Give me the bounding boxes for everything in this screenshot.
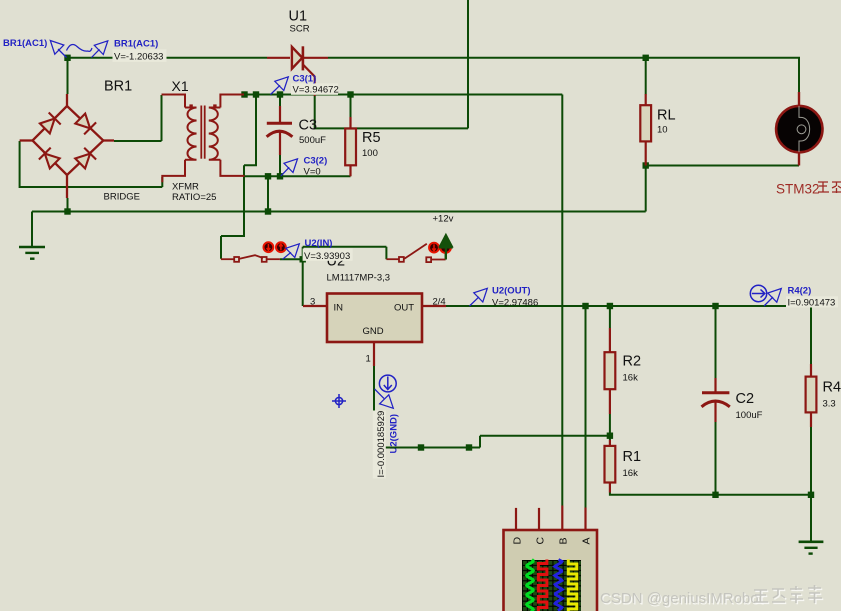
wire U2 GND net (374, 365, 610, 448)
probe U2(GND) value label (rotated) (373, 411, 387, 479)
svg-text:D: D (512, 537, 524, 545)
svg-text:2/4: 2/4 (433, 297, 446, 308)
probe C3(1) arrow (271, 77, 289, 95)
svg-text:1: 1 (366, 354, 371, 365)
probe U2(IN) label (303, 238, 353, 262)
switch SW1 (left, closed) (221, 255, 280, 262)
switch SW2 toggle circle (440, 242, 451, 253)
junction OUT scope A (582, 303, 588, 309)
oscilloscope body (504, 506, 598, 611)
wire top bus right (SCR cathode to lamp corner) (328, 58, 799, 93)
svg-text:C2: C2 (736, 391, 755, 407)
ground symbol right (799, 542, 824, 555)
probe BR1(AC1) right label (113, 39, 167, 63)
svg-text:V=0: V=0 (304, 167, 321, 178)
diode D1 (upper-left) (40, 113, 61, 134)
probe U2(GND) arrow (375, 389, 394, 408)
svg-text:STM32: STM32 (776, 182, 820, 197)
wire C3 bus and scope-B drop (245, 95, 563, 506)
probe U2(OUT) arrow (470, 288, 488, 306)
svg-text:R4: R4 (823, 380, 841, 396)
svg-text:IN: IN (334, 303, 344, 314)
resistor R1 (605, 440, 616, 493)
transformer X1 (162, 95, 245, 183)
scope pin A (584, 508, 586, 531)
waveform blue (ch B) (555, 560, 562, 611)
wire RL-lamp bottom row (646, 165, 799, 167)
junction C3 bottom row x268 (265, 173, 271, 179)
svg-text:16k: 16k (623, 373, 639, 384)
junction RL bottom (643, 162, 649, 168)
svg-text:B: B (558, 537, 570, 544)
resistor R2 (605, 328, 616, 414)
probe C3(2) arrow (281, 159, 298, 176)
junction C3 top (277, 91, 283, 97)
svg-text:U1: U1 (289, 9, 308, 25)
wire C2 pins (715, 306, 717, 495)
svg-text:500uF: 500uF (299, 135, 326, 146)
junction ground bus x67 (64, 208, 70, 214)
wire switch output to U2 IN net (280, 247, 387, 306)
wire R2 chain (609, 306, 611, 440)
wire R1 chain and bottom bus (610, 493, 811, 495)
svg-text:BR1(AC1): BR1(AC1) (3, 38, 47, 49)
svg-text:A: A (581, 537, 593, 544)
probe R4(2) label (786, 286, 838, 309)
wire U2 OUT net (446, 306, 811, 364)
secondary pin paths (220, 95, 244, 108)
primary winding (185, 108, 197, 160)
svg-text:I=-0.000185929: I=-0.000185929 (376, 411, 387, 478)
svg-text:BR1(AC1): BR1(AC1) (114, 39, 158, 50)
svg-text:V=-1.20633: V=-1.20633 (114, 52, 163, 63)
svg-text:GND: GND (363, 326, 384, 337)
wire C3 pins (279, 95, 281, 177)
waveform red (ch C) (538, 560, 547, 611)
junction R5 top (347, 91, 353, 97)
svg-text:RL: RL (657, 108, 676, 124)
svg-text:+12v: +12v (433, 214, 454, 225)
probe C3(1) label (291, 74, 339, 96)
svg-text:R2: R2 (623, 354, 642, 370)
regulator U2 box (303, 294, 446, 367)
lamp (STM32 load) (776, 92, 822, 166)
wire RL top (645, 58, 647, 95)
junction RL top bus (643, 55, 649, 61)
probe C3(2) label (304, 155, 328, 177)
switch SW1 toggle circles (264, 242, 286, 252)
primary pin paths (162, 95, 186, 108)
switch SW2 (right, open) (386, 244, 445, 262)
junction ground bus x268 (265, 208, 271, 214)
scope pin B (561, 506, 563, 531)
svg-text:100uF: 100uF (736, 410, 763, 421)
wire +12v stem (445, 247, 447, 260)
probe U2(IN) arrow (283, 244, 300, 259)
svg-text:C: C (535, 537, 547, 545)
capacitor C2 (702, 378, 730, 422)
svg-text:C3(2): C3(2) (304, 155, 328, 166)
junction gnd-net x421 (418, 444, 424, 450)
watermark CSDN (600, 585, 823, 608)
waveform green (ch D) (527, 560, 534, 611)
junction bottom bus R4 (808, 492, 814, 498)
svg-text:OUT: OUT (394, 303, 414, 314)
wire R5 top (350, 95, 352, 118)
svg-text:X1: X1 (172, 78, 189, 94)
core (200, 106, 202, 159)
resistor R5 (345, 117, 356, 176)
wire RL bottom to ground bus (645, 166, 647, 212)
transformer polarity dots (189, 104, 192, 107)
origin marker (332, 394, 346, 408)
current probe R4(2) symbol (750, 285, 766, 301)
junction at BR1 top (64, 55, 70, 61)
wire BR1 top stub (67, 58, 69, 94)
wire scope A drop (585, 306, 587, 508)
current probe U2(GND) symbol (379, 375, 396, 392)
wire secondary-bottom jog (244, 95, 256, 177)
junction gnd-net x469 (466, 444, 472, 450)
junction C3 bottom (277, 173, 283, 179)
diode D4 (lower-right) (75, 148, 96, 169)
junction OUT C2 (712, 303, 718, 309)
ground symbol left (19, 247, 45, 260)
scope pin D (515, 508, 517, 530)
SCR U1 (267, 46, 328, 96)
diode D3 (lower-left) (39, 148, 60, 169)
svg-text:3: 3 (310, 297, 315, 308)
wire C3 bottom row to R5 (244, 175, 351, 177)
probe BR1(AC1) right arrow (92, 41, 108, 58)
svg-text:C3: C3 (299, 117, 318, 133)
wire SCR gate run (315, 0, 468, 128)
svg-text:CSDN @geniusIMRobot: CSDN @geniusIMRobot (600, 590, 764, 607)
wire drop x268 to ground bus (267, 176, 269, 211)
secondary winding (209, 108, 221, 160)
svg-text:R4(2): R4(2) (788, 286, 812, 297)
probe R4(2) arrow (764, 289, 781, 307)
capacitor C3 (267, 106, 293, 155)
svg-text:I=0.901473: I=0.901473 (788, 297, 836, 308)
wire R4 pins and ground riser (810, 427, 812, 541)
power +12v arrow (439, 234, 453, 260)
svg-text:BRIDGE: BRIDGE (104, 192, 140, 203)
wire secondary-bottom to switch (221, 176, 244, 258)
label STM32 (chinese) (776, 182, 841, 197)
junction bottom bus C2 (712, 492, 718, 498)
probe BR1(AC1) left arrow (50, 41, 66, 58)
svg-text:3.3: 3.3 (823, 399, 836, 410)
svg-text:R5: R5 (362, 130, 381, 146)
svg-text:XFMR: XFMR (172, 182, 199, 193)
wire bridge right to transformer primary (114, 95, 162, 141)
svg-text:10: 10 (657, 125, 668, 136)
junction R2-R1 (607, 433, 613, 439)
svg-text:BR1: BR1 (104, 79, 132, 95)
svg-text:R1: R1 (623, 449, 642, 465)
wire bridge left loop (20, 141, 163, 187)
scope pin C (538, 508, 540, 530)
svg-text:RATIO=25: RATIO=25 (172, 192, 216, 203)
svg-text:V=3.94672: V=3.94672 (293, 85, 339, 96)
svg-text:V=3.93903: V=3.93903 (304, 251, 350, 262)
wire bridge bottom stub (67, 198, 69, 212)
bridge rectifier BR1 (20, 94, 114, 198)
diode D2 (upper-right) (75, 114, 96, 135)
svg-text:V=2.97486: V=2.97486 (492, 297, 538, 308)
junction switch output (300, 256, 306, 262)
probe U2(OUT) label (492, 286, 538, 309)
svg-text:100: 100 (362, 148, 378, 159)
svg-text:U2(IN): U2(IN) (305, 238, 333, 249)
junction secondary top (241, 91, 247, 97)
waveform yellow (ch A) (568, 560, 577, 611)
svg-text:LM1117MP-3,3: LM1117MP-3,3 (327, 273, 391, 284)
resistor R4 (806, 364, 817, 427)
svg-text:SCR: SCR (290, 24, 310, 35)
junction jog x256 (253, 91, 259, 97)
wire ground bus (32, 212, 646, 248)
svg-text:C3(1): C3(1) (293, 74, 317, 85)
probe AC sine icon (67, 44, 93, 51)
junction OUT R2 (607, 303, 613, 309)
resistor RL (640, 94, 651, 166)
svg-text:16k: 16k (623, 468, 639, 479)
svg-text:U2(OUT): U2(OUT) (492, 286, 531, 297)
wire top bus left (BR1 junction to SCR anode) (67, 57, 268, 59)
